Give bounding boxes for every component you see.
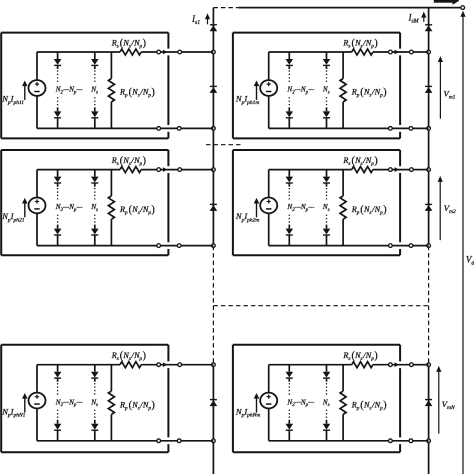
- blocking diode string 1: [210, 25, 218, 32]
- label diode strings N2..Np module N1: [55, 398, 83, 408]
- bypass diode D21: [210, 204, 218, 211]
- shunt resistor Rp module N1: [108, 365, 114, 441]
- terminal + wire, top output module 1m: [389, 50, 429, 55]
- label Vm1: [444, 89, 456, 101]
- terminal + wire, top output module 21: [157, 167, 214, 172]
- PV module box module 1m: [233, 33, 400, 139]
- wire string bus 2 dashed continuation: [428, 246, 430, 365]
- label Ns module N1: [90, 398, 98, 408]
- PV module box module 11: [1, 33, 168, 139]
- current source Iph module 1m: [260, 80, 277, 96]
- node bus1 row1 top: [212, 50, 216, 54]
- wire bottom rail module N1: [37, 440, 157, 442]
- terminal + wire, bottom output module 21: [157, 244, 214, 248]
- current source Iph module 21: [29, 198, 46, 214]
- arrow Vm2: [438, 176, 443, 240]
- arrow VmN: [436, 366, 441, 434]
- wire top rail module Nm: [269, 364, 352, 366]
- diode string 2 module 2m: [323, 170, 331, 246]
- wire left branch module N1: [36, 365, 38, 441]
- node bus1 row1 bottom: [212, 127, 216, 131]
- series resistor Rs module 2m: [352, 167, 389, 173]
- label NpIph module 1m: [235, 94, 260, 106]
- terminal + wire, top output module 2m: [389, 167, 429, 172]
- PV module box module 21: [1, 150, 168, 255]
- diode string 1 module 21: [54, 170, 62, 246]
- diode string 2 module 11: [91, 52, 99, 128]
- thick current arrow Ia top right: [434, 0, 459, 5]
- terminal + wire, top output module Nm: [389, 362, 429, 367]
- diode string 1 module 2m: [286, 170, 294, 246]
- label NpIph module Nm: [235, 406, 260, 418]
- shunt resistor Rp module 2m: [340, 170, 346, 246]
- PV module box module Nm: [233, 345, 400, 452]
- PV module box module N1: [1, 345, 168, 452]
- wire string bus 1 dashed continuation: [212, 246, 214, 365]
- wire bottom rail module 2m: [269, 245, 389, 247]
- wire top rail module N1: [37, 364, 120, 366]
- label IsM: [408, 13, 420, 25]
- node bus1 row2 bottom: [212, 244, 216, 248]
- label NpIph module 2m: [235, 211, 260, 223]
- label diode strings N2..Np module 11: [55, 86, 83, 96]
- label VmN: [442, 399, 455, 411]
- series resistor Rs module 21: [120, 167, 157, 173]
- shunt resistor Rp module Nm: [340, 365, 346, 441]
- label Rp(Ns/Np) module Nm: [351, 399, 387, 411]
- node bus2 row1 bottom: [427, 127, 431, 131]
- current source arrow module 1m: [254, 81, 260, 100]
- label Rp(Ns/Np) module 21: [119, 204, 155, 216]
- label Rp(Ns/Np) module 1m: [351, 87, 387, 99]
- node bus2 row2 top: [427, 168, 431, 172]
- diode string 2 module 21: [91, 170, 99, 246]
- diode string 1 module Nm: [286, 365, 294, 441]
- arrow Vm1: [438, 56, 443, 119]
- current source arrow module 2m: [254, 198, 260, 217]
- label Rs(Ns/Np) module 21: [111, 155, 146, 167]
- label Rs(Ns/Np) module 2m: [342, 155, 377, 167]
- bypass diode DN1: [210, 400, 218, 407]
- bypass diode D2m: [425, 204, 433, 211]
- label Rs(Ns/Np) module Nm: [342, 350, 377, 362]
- terminal + wire, bottom output module N1: [157, 439, 214, 443]
- diode string 1 module N1: [54, 365, 62, 441]
- label NpIph module 21: [1, 211, 25, 223]
- wire left branch module 2m: [268, 170, 270, 246]
- wire array voltage Va with arrow: [460, 11, 465, 474]
- node bus2 row3 top: [427, 363, 431, 367]
- node bus1 row3 top: [212, 363, 216, 367]
- label diode strings N2..Np module 2m: [286, 203, 314, 213]
- label NpIph module N1: [1, 406, 25, 418]
- terminal + wire, bottom output module 2m: [389, 244, 429, 248]
- series resistor Rs module N1: [120, 362, 157, 368]
- terminal + wire, top output module N1: [157, 362, 214, 367]
- terminal + wire, bottom output module 11: [157, 127, 214, 131]
- current source arrow module N1: [22, 393, 28, 412]
- shunt resistor Rp module 1m: [340, 52, 346, 128]
- current source arrow module 21: [22, 198, 28, 217]
- wire top rail module 2m: [269, 169, 352, 171]
- shunt resistor Rp module 21: [108, 170, 114, 246]
- node bus2 row2 bottom: [427, 244, 431, 248]
- diode string 1 module 11: [54, 52, 62, 128]
- label NpIph module 11: [1, 94, 24, 106]
- label Vm2: [444, 203, 456, 215]
- series resistor Rs module 11: [120, 49, 157, 55]
- label Va: [466, 255, 474, 267]
- label diode strings N2..Np module Nm: [286, 398, 314, 408]
- wire top bus (dashed then solid): [213, 7, 461, 9]
- arrow IsM: [421, 12, 426, 22]
- series resistor Rs module 1m: [352, 49, 389, 55]
- wire string bus 2 lower: [428, 365, 430, 474]
- wire bottom rail module 11: [37, 127, 157, 129]
- PV module box module 2m: [233, 150, 400, 255]
- terminal + wire, top output module 11: [157, 50, 214, 55]
- label Ns module 21: [90, 203, 98, 213]
- node bus1 row2 top: [212, 168, 216, 172]
- wire bottom rail module 1m: [269, 127, 389, 129]
- wire string bus 1 lower: [212, 365, 214, 474]
- current source Iph module 2m: [260, 198, 277, 214]
- label Ns module 11: [90, 86, 98, 96]
- current source Iph module Nm: [260, 393, 277, 409]
- wire top rail module 11: [37, 51, 120, 53]
- series resistor Rs module Nm: [352, 362, 389, 368]
- diode string 2 module 1m: [323, 52, 331, 128]
- wire left branch module Nm: [268, 365, 270, 441]
- dashed row continuation between rows 1-2: [206, 144, 241, 146]
- wire top rail module 21: [37, 169, 120, 171]
- label Rp(Ns/Np) module N1: [119, 399, 155, 411]
- current source arrow module Nm: [254, 393, 260, 412]
- terminal + wire, bottom output module 1m: [389, 127, 429, 131]
- label Rs(Ns/Np) module 1m: [342, 38, 377, 50]
- node top-right corner: [461, 6, 465, 10]
- dashed array continuation line: [213, 305, 428, 307]
- wire top rail module 1m: [269, 51, 352, 53]
- blocking diode string M: [425, 25, 433, 32]
- label diode strings N2..Np module 21: [55, 203, 83, 213]
- diode string 2 module N1: [91, 365, 99, 441]
- wire left branch module 11: [36, 52, 38, 128]
- diode string 1 module 1m: [286, 52, 294, 128]
- node bus1 row3 bottom: [212, 439, 216, 443]
- current source Iph module N1: [29, 393, 46, 409]
- label Rs(Ns/Np) module N1: [111, 350, 146, 362]
- node bus2 row1 top: [427, 50, 431, 54]
- arrow Is1: [205, 13, 210, 24]
- label Rp(Ns/Np) module 11: [119, 87, 155, 99]
- bypass diode D11: [210, 86, 218, 93]
- wire left branch module 1m: [268, 52, 270, 128]
- wire bottom rail module 21: [37, 245, 157, 247]
- current source arrow module 11: [22, 81, 28, 100]
- wire bottom rail module Nm: [269, 440, 389, 442]
- diode string 2 module Nm: [323, 365, 331, 441]
- current source Iph module 11: [29, 80, 46, 96]
- label Rp(Ns/Np) module 2m: [351, 204, 387, 216]
- wire string bus 2 upper: [428, 8, 430, 246]
- bypass diode D1m: [425, 86, 433, 93]
- label diode strings N2..Np module 1m: [286, 86, 314, 96]
- wire string bus 1 upper: [212, 8, 214, 246]
- label Ns module 2m: [322, 203, 330, 213]
- wire left branch module 21: [36, 170, 38, 246]
- label Ns module Nm: [322, 398, 330, 408]
- label Rs(Ns/Np) module 11: [111, 38, 146, 50]
- label Ns module 1m: [322, 86, 330, 96]
- terminal + wire, bottom output module Nm: [389, 439, 429, 443]
- bypass diode DNm: [425, 400, 433, 407]
- label Is1: [191, 14, 200, 26]
- node bus2 row3 bottom: [427, 439, 431, 443]
- shunt resistor Rp module 11: [108, 52, 114, 128]
